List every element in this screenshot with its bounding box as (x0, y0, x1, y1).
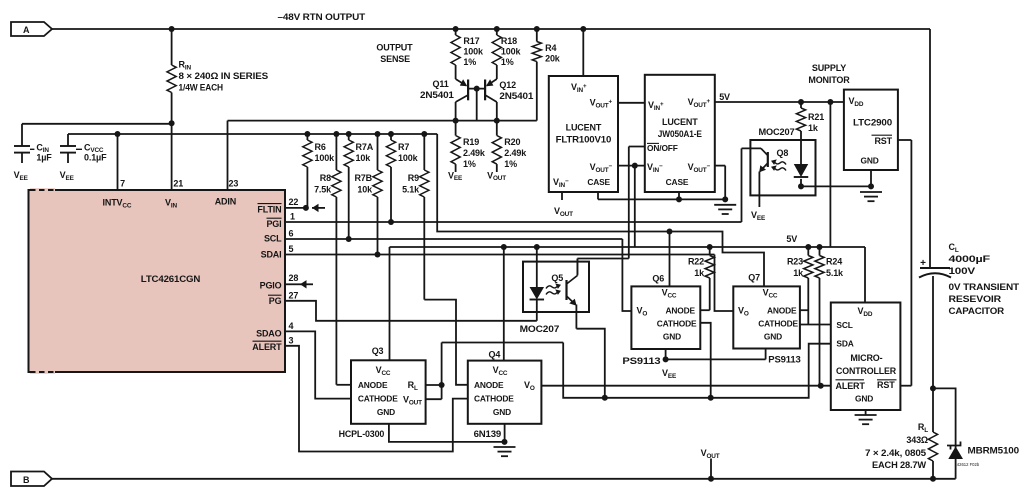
svg-text:1%: 1% (463, 159, 476, 169)
svg-text:1k: 1k (808, 123, 819, 133)
svg-text:100k: 100k (315, 153, 336, 163)
svg-text:7: 7 (120, 179, 125, 189)
svg-text:R24: R24 (826, 257, 842, 267)
svg-text:FLTIN: FLTIN (257, 205, 281, 215)
svg-text:5.1k: 5.1k (402, 185, 420, 195)
svg-text:MOC207: MOC207 (520, 324, 560, 334)
svg-text:PS9113: PS9113 (622, 356, 660, 366)
svg-text:–48V RTN OUTPUT: –48V RTN OUTPUT (278, 12, 366, 22)
svg-text:R7A: R7A (356, 142, 374, 152)
svg-text:FLTR100V10: FLTR100V10 (556, 135, 612, 145)
svg-text:CATHODE: CATHODE (657, 319, 697, 329)
svg-text:7.5k: 7.5k (314, 185, 332, 195)
svg-text:4000µF: 4000µF (949, 254, 991, 264)
svg-text:RST: RST (877, 380, 895, 390)
svg-text:0.1µF: 0.1µF (84, 153, 107, 163)
svg-text:6: 6 (289, 229, 294, 239)
svg-text:10k: 10k (356, 153, 372, 163)
svg-text:OUTPUT: OUTPUT (376, 43, 413, 53)
svg-text:Q3: Q3 (372, 346, 384, 356)
svg-text:MOC207: MOC207 (759, 127, 795, 137)
svg-text:1%: 1% (504, 159, 517, 169)
svg-text:CASE: CASE (666, 177, 689, 187)
svg-text:R20: R20 (504, 137, 520, 147)
svg-text:10k: 10k (357, 185, 373, 195)
svg-text:R22: R22 (688, 257, 704, 267)
svg-text:ADIN: ADIN (215, 197, 236, 207)
svg-text:8 × 240Ω IN SERIES: 8 × 240Ω IN SERIES (179, 71, 269, 81)
svg-text:LUCENT: LUCENT (566, 123, 602, 133)
svg-text:20k: 20k (545, 54, 561, 64)
svg-text:42612 F02b: 42612 F02b (957, 462, 980, 467)
svg-text:LTC4261CGN: LTC4261CGN (141, 274, 200, 284)
svg-text:GND: GND (764, 332, 782, 342)
svg-text:SUPPLY: SUPPLY (812, 63, 846, 73)
svg-text:100V: 100V (949, 266, 976, 276)
svg-text:PGI: PGI (266, 219, 281, 229)
svg-text:1k: 1k (694, 268, 705, 278)
svg-text:CASE: CASE (587, 177, 610, 187)
svg-text:2N5401: 2N5401 (499, 91, 533, 101)
svg-text:CATHODE: CATHODE (358, 394, 398, 404)
svg-text:1: 1 (290, 212, 295, 222)
svg-text:R9: R9 (408, 173, 419, 183)
svg-text:5V: 5V (786, 234, 797, 244)
svg-text:Q11: Q11 (433, 79, 449, 89)
svg-text:5: 5 (289, 244, 294, 254)
svg-text:100k: 100k (463, 47, 484, 57)
svg-text:B: B (23, 475, 30, 485)
svg-text:27: 27 (289, 290, 299, 300)
svg-text:5.1k: 5.1k (826, 268, 844, 278)
svg-text:Q6: Q6 (652, 274, 664, 284)
svg-text:CATHODE: CATHODE (758, 319, 798, 329)
svg-text:GND: GND (855, 394, 873, 404)
svg-text:JW050A1-E: JW050A1-E (658, 129, 702, 139)
svg-text:2.49k: 2.49k (504, 148, 527, 158)
svg-text:1k: 1k (793, 268, 804, 278)
svg-text:6N139: 6N139 (474, 429, 502, 439)
svg-text:EACH 28.7W: EACH 28.7W (872, 460, 927, 470)
svg-text:PS9113: PS9113 (768, 355, 801, 365)
svg-text:Q8: Q8 (777, 148, 789, 158)
svg-text:CAPACITOR: CAPACITOR (949, 306, 1005, 316)
svg-text:1%: 1% (463, 57, 476, 67)
svg-text:28: 28 (289, 273, 299, 283)
svg-text:R17: R17 (463, 36, 479, 46)
svg-text:PG: PG (269, 296, 282, 306)
svg-text:1µF: 1µF (36, 153, 52, 163)
svg-text:SCL: SCL (836, 320, 852, 330)
svg-text:4: 4 (289, 321, 294, 331)
svg-text:Q12: Q12 (499, 80, 516, 90)
svg-text:Q5: Q5 (551, 273, 563, 283)
svg-text:LUCENT: LUCENT (662, 117, 698, 127)
svg-text:RESEVOIR: RESEVOIR (949, 294, 1002, 304)
svg-text:LTC2900: LTC2900 (853, 118, 892, 128)
svg-text:1%: 1% (501, 57, 514, 67)
svg-text:Q7: Q7 (748, 272, 760, 282)
svg-text:100k: 100k (398, 153, 419, 163)
svg-text:23: 23 (229, 179, 239, 189)
svg-text:7 × 2.4k, 0805: 7 × 2.4k, 0805 (865, 448, 926, 458)
svg-text:R8: R8 (320, 173, 331, 183)
svg-text:ALERT: ALERT (252, 342, 282, 352)
svg-text:SDA: SDA (836, 339, 853, 349)
svg-text:GND: GND (861, 156, 879, 166)
svg-text:A: A (23, 25, 30, 35)
svg-text:SDAO: SDAO (256, 329, 282, 339)
svg-text:ANODE: ANODE (666, 306, 696, 316)
svg-text:ON/OFF: ON/OFF (647, 143, 678, 153)
svg-text:100k: 100k (501, 47, 522, 57)
svg-text:ANODE: ANODE (474, 380, 504, 390)
svg-text:R7: R7 (398, 142, 409, 152)
svg-text:22: 22 (289, 197, 299, 207)
svg-text:R6: R6 (315, 142, 326, 152)
svg-text:SCL: SCL (264, 234, 282, 244)
svg-text:5V: 5V (719, 92, 730, 102)
svg-text:343Ω: 343Ω (906, 435, 928, 445)
svg-text:0V TRANSIENT: 0V TRANSIENT (949, 282, 1020, 292)
svg-text:Q4: Q4 (489, 350, 501, 360)
svg-text:CONTROLLER: CONTROLLER (836, 366, 897, 376)
svg-text:21: 21 (173, 179, 183, 189)
svg-text:CATHODE: CATHODE (474, 394, 514, 404)
svg-text:SDAI: SDAI (261, 250, 282, 260)
svg-text:ANODE: ANODE (358, 380, 388, 390)
svg-text:RST: RST (874, 136, 892, 146)
svg-text:MBRM5100: MBRM5100 (968, 446, 1020, 456)
svg-text:1/4W EACH: 1/4W EACH (179, 83, 224, 93)
svg-text:SENSE: SENSE (380, 54, 410, 64)
svg-text:HCPL-0300: HCPL-0300 (339, 429, 385, 439)
svg-text:GND: GND (663, 332, 681, 342)
svg-text:R7B: R7B (354, 173, 372, 183)
svg-text:3: 3 (289, 335, 294, 345)
svg-text:R19: R19 (463, 137, 479, 147)
svg-text:GND: GND (377, 407, 395, 417)
svg-text:MONITOR: MONITOR (808, 75, 850, 85)
svg-text:R21: R21 (808, 112, 824, 122)
svg-text:GND: GND (493, 407, 511, 417)
svg-text:2N5401: 2N5401 (420, 90, 454, 100)
svg-text:2.49k: 2.49k (463, 148, 486, 158)
svg-text:ANODE: ANODE (767, 306, 797, 316)
svg-text:R23: R23 (787, 257, 803, 267)
svg-text:MICRO-: MICRO- (850, 353, 882, 363)
svg-text:PGIO: PGIO (260, 281, 282, 291)
svg-text:ALERT: ALERT (836, 381, 866, 391)
svg-text:R18: R18 (501, 36, 517, 46)
svg-text:R4: R4 (545, 43, 556, 53)
